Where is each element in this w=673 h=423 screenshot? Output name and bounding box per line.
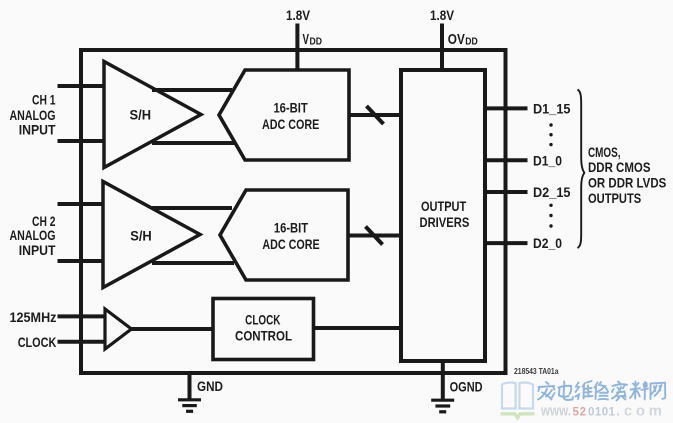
svg-text:S/H: S/H (130, 107, 152, 123)
wire S/H to ADC CH2 top (152, 206, 232, 210)
output wire D2_0 (485, 241, 528, 245)
OGND wire (441, 361, 445, 401)
svg-text:OV: OV (448, 32, 465, 48)
wire clock control to output drivers (314, 326, 402, 330)
svg-text:CH 1: CH 1 (32, 92, 56, 108)
OVDD supply wire (440, 24, 444, 72)
16-bit ADC core CH1 (219, 70, 349, 160)
CH2 input wire + (58, 202, 105, 206)
wire clock buffer to clock control (132, 327, 214, 331)
svg-text:OGND: OGND (450, 379, 483, 395)
S/H amplifier CH2 (103, 182, 200, 288)
label D2_15 (533, 185, 571, 200)
svg-text:INPUT: INPUT (19, 121, 56, 137)
outer chip boundary box (81, 50, 506, 373)
output drivers block (401, 70, 485, 361)
svg-text:DRIVERS: DRIVERS (420, 214, 470, 230)
output wire D2_15 (485, 190, 528, 194)
bus wire ADC1 to output drivers (349, 113, 401, 117)
CH1 analog input label (10, 92, 56, 138)
figure number 218543 TA01a (514, 366, 559, 376)
VDD pin label (303, 32, 323, 48)
svg-text:0101: 0101 (588, 406, 616, 418)
svg-text:16-BIT: 16-BIT (274, 220, 309, 236)
OGND label (450, 379, 483, 395)
S/H label CH2 (130, 228, 152, 244)
svg-text:ADC CORE: ADC CORE (262, 116, 319, 132)
watermark chinese characters (538, 381, 665, 401)
1.8V label (OVDD) (430, 7, 455, 23)
svg-text:D2_15: D2_15 (533, 185, 571, 200)
outputs mode label (588, 144, 666, 206)
OVDD pin label (448, 32, 478, 48)
GND label (197, 378, 223, 394)
svg-text:S/H: S/H (130, 228, 152, 244)
watermark book icon (501, 382, 535, 417)
bus slash CH1 (367, 106, 384, 124)
CH2 input wire - (58, 259, 105, 263)
output wire D1_15 (485, 106, 528, 110)
svg-text:OUTPUTS: OUTPUTS (588, 190, 641, 206)
svg-text:D1_15: D1_15 (533, 101, 571, 116)
clock control block (213, 299, 314, 360)
output wire D1_0 (485, 158, 528, 162)
label D2_0 (533, 236, 562, 251)
svg-text:OR DDR LVDS: OR DDR LVDS (588, 175, 666, 191)
svg-text:D1_0: D1_0 (533, 153, 562, 168)
label D1_0 (533, 153, 562, 168)
svg-text:DDR CMOS: DDR CMOS (588, 159, 651, 175)
CH1 input wire - (58, 139, 105, 143)
bus slash CH2 (366, 227, 383, 245)
svg-text:218543 TA01a: 218543 TA01a (514, 366, 559, 376)
clock input wire 2 (58, 340, 106, 344)
svg-text:www.: www. (540, 402, 571, 419)
svg-text:CONTROL: CONTROL (235, 328, 292, 344)
svg-text:1.8V: 1.8V (286, 7, 311, 23)
VDD supply wire (295, 24, 299, 71)
svg-text:125MHz: 125MHz (10, 309, 57, 325)
svg-text:CLOCK: CLOCK (245, 311, 280, 327)
ellipsis dots group 2 (549, 204, 552, 228)
S/H amplifier CH1 (104, 62, 201, 168)
svg-text:.com: .com (616, 402, 662, 419)
svg-text:GND: GND (197, 378, 223, 394)
GND wire (188, 373, 192, 401)
svg-text:ADC CORE: ADC CORE (262, 236, 319, 252)
svg-text:CMOS,: CMOS, (588, 144, 621, 160)
clock control label (235, 311, 292, 343)
label D1_15 (533, 101, 571, 116)
wire S/H to ADC CH1 bottom (152, 141, 234, 145)
125MHz clock input label (10, 309, 57, 350)
grouping brace (578, 90, 585, 249)
ellipsis dots group 1 (549, 123, 552, 146)
svg-text:INPUT: INPUT (19, 242, 56, 258)
clock input wire 1 (58, 314, 106, 318)
svg-text:DD: DD (465, 37, 478, 48)
OGND ground symbol (431, 400, 454, 412)
CH2 analog input label (10, 213, 56, 258)
S/H label CH1 (130, 107, 152, 123)
1.8V label (VDD) (286, 7, 311, 23)
svg-text:ANALOG: ANALOG (10, 227, 56, 243)
ADC CH1 label (262, 99, 319, 132)
svg-text:OUTPUT: OUTPUT (421, 198, 467, 214)
svg-text:52: 52 (573, 406, 587, 418)
svg-text:16-BIT: 16-BIT (273, 99, 308, 115)
svg-text:DD: DD (310, 37, 323, 48)
svg-text:1.8V: 1.8V (430, 7, 455, 23)
clock buffer amp (105, 309, 132, 349)
wire S/H to ADC CH1 top (152, 88, 232, 92)
wire S/H to ADC CH2 bottom (152, 261, 234, 265)
svg-text:V: V (303, 32, 310, 48)
svg-text:CLOCK: CLOCK (18, 334, 57, 350)
bus wire ADC2 to output drivers (348, 234, 401, 238)
output drivers label (420, 198, 470, 230)
GND ground symbol (178, 400, 201, 412)
ADC CH2 label (262, 220, 319, 252)
watermark url (540, 402, 662, 419)
CH1 input wire + (58, 84, 105, 88)
16-bit ADC core CH2 (220, 190, 348, 280)
svg-text:D2_0: D2_0 (533, 236, 562, 251)
